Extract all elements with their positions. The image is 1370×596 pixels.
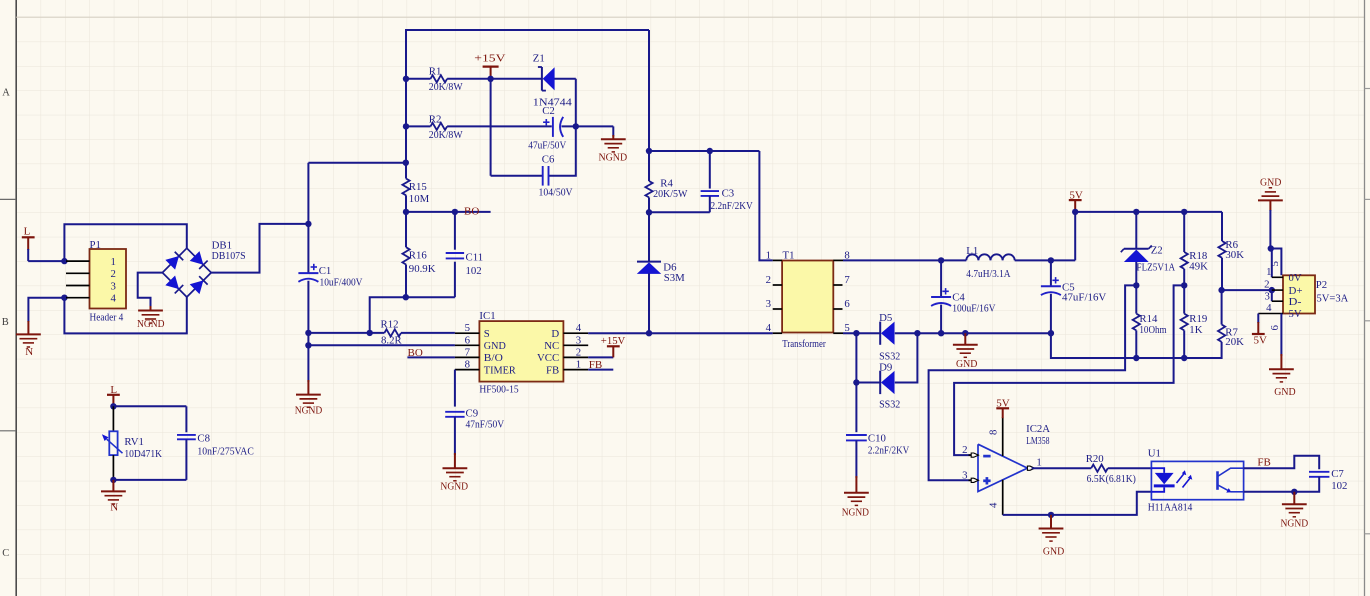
junction C1/R12 row	[305, 330, 311, 336]
sheet zone separator B/C left	[0, 430, 16, 432]
wire R18 to node row	[1183, 269, 1185, 314]
wire NGND stub C7	[1293, 492, 1295, 504]
svg-text:1: 1	[576, 359, 581, 371]
wire Z2 stub	[1135, 212, 1137, 249]
power ground GND (op-amp)	[1039, 528, 1064, 530]
svg-text:GND: GND	[1260, 177, 1281, 189]
svg-text:C6: C6	[542, 153, 555, 165]
svg-text:C8: C8	[197, 432, 210, 444]
svg-text:20K/8W: 20K/8W	[429, 81, 464, 93]
resistor R18 49K	[1181, 252, 1188, 269]
svg-text:D: D	[551, 328, 559, 340]
power ground NGND (primary)	[296, 394, 321, 396]
svg-text:IC2A: IC2A	[1026, 423, 1050, 435]
junction D9 left	[853, 379, 859, 385]
resistor R19 1K	[1181, 314, 1188, 331]
connector P2 body	[1283, 275, 1315, 313]
power ground NGND (15V filter)	[601, 138, 626, 140]
svg-text:7: 7	[844, 274, 850, 286]
svg-text:2: 2	[962, 444, 967, 456]
svg-text:GND: GND	[956, 358, 977, 370]
junction left rail x406 at y163	[403, 160, 409, 166]
svg-text:NGND: NGND	[1281, 518, 1309, 530]
junction R12 row	[367, 330, 373, 336]
IC1 pin 1 FB	[563, 369, 588, 371]
svg-text:3: 3	[111, 280, 116, 292]
op-amp IC2A LM358 triangle	[978, 444, 1027, 491]
wire R4 bottom	[648, 197, 650, 261]
U1 LED triangle	[1155, 473, 1174, 484]
junction rail/BO-C11 row	[403, 209, 409, 215]
svg-text:A: A	[2, 87, 10, 98]
P2 pin 4 5V	[1258, 313, 1283, 315]
wire R20 to U1	[1108, 467, 1152, 469]
resistor R4 20K/5W	[645, 181, 652, 197]
svg-text:5: 5	[465, 322, 470, 334]
wire C1 node vertical to left rail	[307, 163, 309, 273]
diode D9 SS32	[879, 371, 881, 394]
wire L net vertical and top run to bridge	[64, 224, 186, 261]
svg-text:1: 1	[1266, 266, 1271, 278]
svg-text:2.2nF/2KV: 2.2nF/2KV	[868, 444, 910, 456]
svg-text:Header 4: Header 4	[90, 312, 124, 324]
svg-text:C2: C2	[542, 105, 555, 117]
junction NGND C7	[1291, 489, 1297, 495]
svg-text:LM358: LM358	[1026, 435, 1049, 447]
resistor R7 20K	[1221, 290, 1223, 324]
sheet border left vertical line	[15, 0, 17, 596]
svg-text:IC1: IC1	[479, 310, 495, 322]
wire L node RV1/C8 top	[113, 405, 186, 407]
svg-text:100uF/16V: 100uF/16V	[952, 302, 995, 314]
svg-text:FB: FB	[546, 364, 559, 376]
wire op-amp -input from R18/R19 node	[954, 285, 1184, 455]
resistor R14 10Ohm	[1133, 314, 1140, 331]
svg-text:HF500-15: HF500-15	[479, 384, 518, 396]
power port +15V at VCC	[607, 345, 620, 347]
svg-text:4: 4	[576, 322, 582, 334]
svg-text:N: N	[25, 346, 33, 358]
T1 pin 7	[833, 284, 842, 286]
P1 pin 1	[66, 260, 90, 262]
wire L1 to C5/5V corner	[1015, 259, 1075, 261]
wire Z2 to node row	[1135, 262, 1137, 314]
svg-text:104/50V: 104/50V	[539, 186, 573, 198]
wire C9 to NGND	[454, 417, 456, 455]
svg-text:5V: 5V	[1069, 189, 1083, 201]
op-amp plus symbol	[983, 479, 990, 482]
T1 pin 5	[833, 332, 843, 334]
svg-text:H11AA814: H11AA814	[1148, 501, 1193, 513]
IC1 pin 8 TIMER	[455, 369, 480, 371]
svg-text:4: 4	[1266, 302, 1272, 314]
connector P1 Header 4	[90, 249, 127, 309]
svg-text:20K/8W: 20K/8W	[429, 129, 464, 141]
resistor R16 90.9K	[402, 247, 409, 264]
power ground GND inverted (0V/shield)	[1258, 199, 1283, 201]
junction gnd rail R14	[1133, 355, 1139, 361]
svg-text:7: 7	[465, 346, 471, 358]
svg-text:4: 4	[766, 322, 772, 334]
capacitor C4 100uF/16V	[940, 260, 942, 297]
bridge rectifier DB1 DB107S diamond	[162, 248, 211, 297]
power port 5V inverted at P2 pin4	[1252, 333, 1265, 335]
svg-text:U1: U1	[1148, 448, 1161, 460]
varistor RV1 10D471K	[109, 431, 117, 455]
wire rail below R16	[405, 265, 407, 298]
wire BO/C11 row	[406, 211, 491, 213]
optocoupler U1 H11AA814 body	[1151, 461, 1243, 499]
power port +15V at R1 node	[483, 65, 499, 67]
svg-text:0V: 0V	[1289, 272, 1302, 284]
wire C3 bottom link	[649, 211, 710, 213]
power ground NGND (bridge minus)	[138, 310, 163, 312]
junction rail/R2	[403, 123, 409, 129]
svg-text:GND: GND	[484, 340, 506, 352]
junction C1/GND row	[305, 342, 311, 348]
capacitor C9 47nF/50V	[445, 411, 464, 413]
T1 pin 3	[773, 308, 782, 310]
junction R4 top	[646, 148, 652, 154]
svg-text:20K/5W: 20K/5W	[653, 188, 688, 200]
diode D5 SS32	[879, 322, 881, 345]
svg-text:R1: R1	[429, 66, 442, 78]
junction C5 bottom	[1048, 330, 1054, 336]
svg-text:DB107S: DB107S	[212, 250, 246, 262]
resistor R2 20K/8W	[406, 125, 431, 127]
svg-text:6: 6	[1269, 325, 1281, 331]
wire L to P1 pin1	[27, 249, 29, 261]
svg-text:BO: BO	[464, 205, 479, 217]
wire C10 to NGND	[855, 440, 857, 478]
wire divider node to P2 D+	[1222, 289, 1272, 291]
svg-text:SS32: SS32	[879, 399, 900, 411]
resistor R20 6.5K(6.81K)	[1091, 465, 1108, 472]
svg-text:2: 2	[576, 346, 581, 358]
junction rail/R1	[403, 76, 409, 82]
wire bridge plus to C1 node	[211, 224, 308, 273]
wire N net: P1 pin4 to bottom run to bridge	[64, 297, 186, 333]
svg-text:1: 1	[766, 250, 771, 262]
capacitor C7 102	[1309, 471, 1329, 473]
P2 pin 1 0V	[1272, 276, 1283, 278]
svg-text:D9: D9	[879, 361, 892, 373]
U1 phototransistor emitter	[1218, 485, 1231, 492]
power port 5V (output)	[1069, 199, 1082, 201]
wire U1 collector FB to C7	[1244, 456, 1320, 470]
svg-text:NGND: NGND	[295, 404, 323, 416]
svg-text:FB: FB	[1257, 457, 1270, 469]
wire D9 branch down	[855, 333, 857, 382]
T1 pin 4	[773, 332, 782, 334]
P1 pin 2	[66, 272, 90, 274]
wire C1 bottom to IC1 rows	[307, 281, 309, 346]
junction D5/D9 merge	[914, 330, 920, 336]
svg-text:5: 5	[1269, 261, 1281, 266]
power port L (line input)	[22, 236, 35, 238]
svg-text:R15: R15	[409, 181, 427, 193]
resistor R6 30K	[1218, 241, 1225, 258]
wire P2 pin4 to 5V	[1257, 314, 1259, 324]
op-amp pin 1 output	[1027, 466, 1034, 470]
svg-text:6: 6	[844, 298, 850, 310]
svg-text:102: 102	[466, 265, 482, 277]
op-amp pin 3 non-inverting input	[969, 479, 972, 481]
svg-text:NC: NC	[544, 340, 559, 352]
svg-text:C3: C3	[722, 187, 735, 199]
junction 5V rail Z2	[1133, 209, 1139, 215]
U1 LED emission arrows	[1177, 473, 1185, 483]
op-amp pin 4 V-	[1002, 480, 1004, 515]
svg-text:C7: C7	[1331, 468, 1344, 480]
wire R18 stub	[1183, 212, 1185, 252]
junction C11 top	[452, 209, 458, 215]
junction drain row	[646, 330, 652, 336]
zener diode Z2 FLZ5V1A	[1124, 248, 1149, 250]
svg-text:R2: R2	[429, 114, 442, 126]
svg-text:L: L	[110, 384, 117, 396]
bridge diode upper-left (anode left vertex, cathode top)	[165, 256, 179, 270]
svg-text:49K: 49K	[1189, 261, 1208, 273]
svg-text:NGND: NGND	[440, 480, 468, 492]
junction GND stub	[962, 330, 968, 336]
wire to D9	[856, 382, 880, 384]
svg-text:R16: R16	[409, 250, 428, 262]
svg-text:B: B	[2, 317, 9, 328]
earth ground N (input neutral)	[16, 333, 41, 335]
svg-text:R20: R20	[1086, 453, 1104, 465]
T1 pin 1	[773, 259, 782, 261]
junction D+/D- tie	[1269, 287, 1275, 293]
transformer T1 body	[782, 261, 833, 333]
svg-text:90.9K: 90.9K	[409, 263, 436, 275]
power ground GND (P2 shield)	[1269, 368, 1294, 370]
wire R16 bottom to R12 row and C11 bottom	[370, 297, 406, 333]
junction C4 bottom	[938, 330, 944, 336]
wire GND stub op-amp	[1050, 515, 1052, 529]
U1 LED cathode lead	[1151, 487, 1164, 491]
svg-text:S: S	[484, 328, 490, 340]
wire T1 pin5 to D5	[843, 332, 880, 334]
wire drain row IC1 pin4 to T1 pin4	[588, 332, 773, 334]
wire D6 to drain row	[648, 273, 650, 333]
wire IC1 pin8 TIMER to C9	[454, 370, 456, 407]
svg-text:4.7uH/3.1A: 4.7uH/3.1A	[966, 268, 1010, 280]
wire P2 pin6 to GND	[1280, 354, 1282, 369]
svg-text:+15V: +15V	[601, 335, 626, 347]
svg-text:10Ohm: 10Ohm	[1139, 324, 1167, 336]
svg-text:1: 1	[111, 256, 116, 268]
svg-text:3: 3	[766, 298, 771, 310]
svg-text:Z1: Z1	[533, 53, 545, 65]
resistor R15 10M	[402, 179, 409, 196]
svg-text:B/O: B/O	[484, 352, 503, 364]
svg-text:C: C	[2, 548, 9, 559]
U1 phototransistor collector	[1218, 468, 1244, 476]
capacitor C6 104/50V	[491, 175, 543, 177]
svg-text:RV1: RV1	[124, 436, 144, 448]
svg-text:8: 8	[988, 430, 1000, 435]
wire op-amp +input from Z2/R14 node	[929, 285, 1137, 480]
svg-text:5V: 5V	[1289, 308, 1302, 320]
junction C4 top	[938, 257, 944, 263]
capacitor C3 2.2nF/2KV	[709, 151, 711, 189]
bridge diode upper-right (anode top vertex, cathode right)	[190, 251, 204, 265]
svg-text:C11: C11	[466, 251, 484, 263]
svg-text:NGND: NGND	[599, 152, 628, 164]
wire T1 pin8 rail y260	[843, 259, 966, 261]
svg-text:1K: 1K	[1189, 324, 1202, 336]
P1 pin 3	[66, 285, 90, 287]
IC1 pin 3 NC	[563, 344, 588, 346]
wire R14 bottom	[1135, 330, 1137, 358]
wire FB stub at pin1	[588, 369, 613, 371]
junction R4/C3 bottom	[646, 209, 652, 215]
wire GND row to IC1 pin6	[308, 344, 455, 346]
diode D6 S3M (freewheel)	[637, 261, 661, 263]
svg-text:Transformer: Transformer	[782, 338, 826, 350]
P2 pin 3 D-	[1272, 300, 1283, 302]
sheet border top line	[16, 16, 1364, 18]
junction 5V rail R18	[1181, 209, 1187, 215]
svg-text:P1: P1	[90, 239, 101, 251]
wire RV1 top lead	[112, 406, 114, 431]
junction Z2/R14 row	[1133, 282, 1139, 288]
wire bridge minus to NGND	[138, 273, 163, 308]
svg-text:P2: P2	[1316, 279, 1327, 291]
junction GND/pin5	[1268, 245, 1274, 251]
wire D9 out up to rail	[895, 333, 918, 382]
svg-text:30K: 30K	[1225, 249, 1244, 261]
svg-text:2.2nF/2KV: 2.2nF/2KV	[711, 200, 753, 212]
svg-text:47nF/50V: 47nF/50V	[466, 419, 505, 431]
svg-text:NGND: NGND	[137, 318, 165, 330]
svg-text:5V: 5V	[1254, 334, 1268, 346]
svg-text:2: 2	[1264, 279, 1269, 291]
junction RV1 bottom	[110, 477, 116, 483]
U1 phototransistor base bar	[1216, 471, 1219, 490]
svg-text:10M: 10M	[409, 193, 430, 205]
bridge diode lower-left (anode left vertex, cathode bottom)	[165, 276, 179, 290]
wire left rail top segment from top run	[406, 30, 649, 179]
inductor L1 4.7uH/3.1A	[966, 254, 1014, 260]
wire VCC pin2 to +15V	[588, 356, 613, 358]
junction T1 pin5 node	[853, 330, 859, 336]
power port L (varistor branch)	[107, 394, 120, 396]
IC1 pin 4 D	[563, 332, 588, 334]
wire block right rail	[549, 79, 576, 176]
svg-text:6: 6	[465, 334, 471, 346]
wire C3 top link	[649, 150, 759, 152]
wire +15V rail down block left side	[490, 79, 492, 176]
svg-text:2: 2	[766, 274, 771, 286]
T1 pin 6	[833, 308, 842, 310]
wire D- tie to D+	[1271, 290, 1273, 301]
svg-text:102: 102	[1331, 480, 1347, 492]
svg-text:2: 2	[111, 268, 116, 280]
wire R6 stub from 5V rail	[1221, 212, 1223, 241]
svg-text:5V: 5V	[996, 398, 1010, 410]
wire GND to P2 pin1/pin5	[1269, 200, 1271, 211]
capacitor C11 102	[454, 212, 456, 250]
svg-text:N: N	[110, 502, 118, 514]
sheet zone separator A/B left	[0, 198, 16, 200]
svg-text:D-: D-	[1289, 296, 1302, 308]
junction RV1 top	[110, 403, 116, 409]
power ground NGND (feedback)	[1282, 503, 1307, 505]
junction 5V rail left	[1072, 209, 1078, 215]
svg-text:1: 1	[1036, 456, 1041, 468]
wire pin4 to GND junction and U1 cathode	[1003, 492, 1152, 515]
wire C2 right to NGND	[562, 125, 614, 127]
capacitor C2 47uF/50V polarized	[552, 117, 554, 137]
svg-text:L1: L1	[966, 245, 978, 257]
wire D5 out to rail	[895, 332, 918, 334]
IC1 pin 6 GND	[455, 344, 480, 346]
junction at P1 pin1	[61, 258, 67, 264]
IC1 pin 5 S	[455, 332, 480, 334]
junction C3 top	[707, 148, 713, 154]
IC1 pin 2 VCC	[563, 356, 588, 358]
junction R18/R19 row	[1181, 282, 1187, 288]
wire secondary output rail y333	[917, 332, 1051, 334]
svg-text:C10: C10	[868, 432, 886, 444]
power ground GND (secondary)	[953, 344, 978, 346]
svg-text:47uF/50V: 47uF/50V	[528, 139, 566, 151]
wire N branch to N earth symbol	[28, 298, 64, 322]
svg-text:L: L	[24, 226, 31, 238]
junction gnd rail R19	[1181, 355, 1187, 361]
wire R12 row (S pin)	[308, 332, 384, 334]
svg-text:4: 4	[988, 502, 1000, 508]
svg-text:TIMER: TIMER	[484, 364, 517, 376]
capacitor C10 2.2nF/2KV (Y-cap)	[846, 434, 867, 436]
capacitor C1 10uF/400V (bulk)	[298, 272, 318, 274]
U1 LED anode lead	[1151, 468, 1164, 473]
zener diode Z1 1N4744	[541, 67, 543, 91]
wire C7 bottom / U1 emitter to NGND	[1244, 477, 1320, 492]
svg-text:D5: D5	[879, 312, 892, 324]
junction at P1 pin4	[61, 295, 67, 301]
P2 pin 6 shield	[1280, 314, 1282, 357]
wire top run right vertical (drain snubber)	[648, 30, 650, 181]
wire C8 bottom / RV1 bottom	[185, 439, 187, 480]
svg-text:3: 3	[962, 469, 967, 481]
svg-text:FLZ5V1A: FLZ5V1A	[1137, 262, 1176, 274]
svg-text:3: 3	[1264, 290, 1269, 302]
IC1 pin 7 B/O	[455, 356, 480, 358]
P1 pin 4	[66, 297, 90, 299]
wire RV1 bottom lead	[112, 455, 114, 480]
junction +15V	[487, 76, 493, 82]
junction GND op-amp	[1048, 512, 1054, 518]
svg-text:20K: 20K	[1225, 336, 1244, 348]
svg-text:10D471K: 10D471K	[124, 448, 162, 460]
svg-text:Z2: Z2	[1151, 245, 1163, 257]
svg-text:10uF/400V: 10uF/400V	[320, 277, 363, 289]
sheet border right vertical line	[1364, 0, 1366, 596]
svg-text:R12: R12	[381, 318, 399, 330]
op-amp pin 8 V+ with 5V	[1002, 417, 1004, 456]
wire BO to IC1 pin7	[407, 356, 455, 358]
op-amp pin 2 inverting input	[969, 454, 972, 456]
wire Z1 row	[491, 78, 542, 80]
svg-text:+15V: +15V	[474, 52, 505, 64]
wire stub to NGND below IC1 rows	[307, 345, 309, 382]
svg-text:GND: GND	[1274, 386, 1295, 398]
svg-text:47uF/16V: 47uF/16V	[1062, 291, 1107, 303]
earth ground N (varistor branch)	[101, 490, 126, 492]
